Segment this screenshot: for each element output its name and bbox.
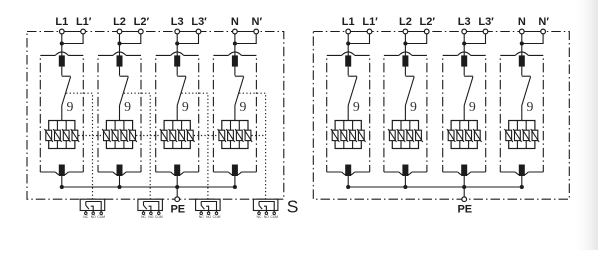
terminal L2' [424,29,429,34]
lower thermal disconnector L2 [402,165,408,177]
svg-text:N′: N′ [252,16,263,28]
module enclosure (dash-dot) around L3 path [156,55,199,172]
varistor 1 of L3 [447,129,455,142]
contact terminal NO of FM4 [265,211,268,215]
enclosure hop arc over L2 conductor [399,52,412,56]
mechanical linkage (dotted) from switch N to contact [239,93,265,199]
varistor 2 of N [513,129,521,142]
varistor bank box L2 [106,121,132,149]
junction dot N/N' [233,41,237,45]
varistor 2 of L2 [111,129,119,142]
terminal L3' [196,29,201,34]
varistor 3 of L3 [464,129,472,142]
varistor 2 of L3 [169,129,177,142]
svg-text:NC: NC [141,215,146,219]
wire N to PE bus [521,176,523,187]
wire PE bus to PE terminal [463,187,465,197]
terminal N [233,29,238,34]
changeover contact FM1 [86,202,101,211]
svg-text:9: 9 [124,99,131,114]
thermal disconnect switch L2 [119,67,121,76]
thermal disconnect switch L1 [61,67,63,76]
svg-text:NO: NO [148,215,153,219]
varistor 3 of N [522,129,530,142]
wire L1 to PE bus [61,176,63,187]
changeover contact FM2 [144,202,159,211]
svg-text:PE: PE [170,204,185,216]
svg-text:COM: COM [213,215,221,219]
upper thermal disconnector L3 [174,55,180,66]
varistor 3 of L2 [120,129,128,142]
svg-text:L3: L3 [458,16,471,28]
lower thermal disconnector L3 [461,165,467,177]
svg-text:9: 9 [66,99,73,114]
varistor 1 of L2 [102,129,110,142]
boundary segment between terminals [467,31,484,33]
thermal linkage (dotted) at varistor row L2 [136,135,161,137]
PE bus wire [62,186,235,188]
varistor 3 of N [235,129,243,142]
varistor 3 of L1 [348,129,356,142]
varistor 4 of N [244,129,252,142]
enclosure hop arc under L2 conductor [399,172,412,176]
terminal N' [254,29,259,34]
module enclosure (dash-dot) around L2 path [98,55,141,172]
changeover contact FM3 [201,202,216,211]
svg-text:L3: L3 [171,16,184,28]
svg-text:S: S [287,197,299,217]
svg-text:9: 9 [526,99,533,114]
wire L3 down to junction [463,34,465,56]
boundary segment between terminals [351,31,368,33]
lower thermal disconnector L1 [345,165,351,177]
svg-text:PE: PE [457,204,472,216]
thermal disconnect switch N [234,67,236,76]
svg-text:L2′: L2′ [134,16,150,28]
upper thermal disconnector L3 [461,55,467,66]
contact terminal NO of FM2 [150,211,153,215]
svg-text:COM: COM [270,215,278,219]
lower thermal disconnector L3 [174,165,180,177]
svg-text:L3′: L3′ [191,16,207,28]
svg-text:COM: COM [155,215,163,219]
varistor 2 of N [226,129,234,142]
junction dot on PE bus (L3) [462,185,466,189]
svg-text:NC: NC [257,215,262,219]
module enclosure (dash-dot) around N path [213,55,256,172]
varistor 4 of L1 [357,129,365,142]
varistor 1 of L3 [160,129,168,142]
varistor bank box N [222,121,248,149]
device enclosure (dash-dot) right block [313,32,569,200]
wire L3 down to junction [176,34,178,56]
varistor 2 of L3 [456,129,464,142]
wire N' down and over to junction [235,34,256,44]
svg-text:NO: NO [91,215,96,219]
varistor 4 of N [531,129,539,142]
remote signalling contact box FM2 [138,199,163,210]
enclosure hop arc over N conductor [228,52,241,56]
thermal linkage (dotted) at varistor row L1 [78,135,103,137]
varistor 2 of L1 [340,129,348,142]
contact terminal NO of FM1 [92,211,95,215]
varistor 1 of N [218,129,226,142]
contact terminal COM of FM3 [215,211,218,215]
junction dot N/N' [520,41,524,45]
junction dot on PE bus (L1) [346,185,350,189]
boundary segment between terminals [180,31,197,33]
varistor 3 of L3 [177,129,185,142]
upper thermal disconnector L1 [59,55,65,66]
svg-text:L2: L2 [113,16,126,28]
terminal N [519,29,524,34]
thermal linkage (dotted) at varistor row N [252,135,266,137]
svg-text:NC: NC [199,215,204,219]
enclosure hop arc under L1 conductor [55,172,68,176]
varistor 1 of N [505,129,513,142]
thermal disconnect switch L3 [463,67,465,76]
terminal L3 [462,29,467,34]
terminal L2 [403,29,408,34]
enclosure hop arc over L3 conductor [171,52,184,56]
terminal PE [175,197,180,202]
junction dot on PE bus (L3) [175,185,179,189]
contact terminal NO of FM3 [207,211,210,215]
varistor 4 of L2 [414,129,422,142]
module enclosure (dash-dot) around N path [500,55,543,172]
wire L1 down to junction [61,34,63,56]
changeover contact FM4 [259,202,274,211]
wire L1' down and over to junction [348,34,369,44]
varistor 1 of L1 [45,129,53,142]
varistor 1 of L1 [331,129,339,142]
varistor 2 of L1 [53,129,61,142]
varistor 4 of L3 [473,129,481,142]
svg-text:N: N [518,16,526,28]
enclosure hop arc over L1 conductor [342,52,355,56]
contact terminal COM of FM4 [273,211,276,215]
svg-text:L1: L1 [55,16,68,28]
contact terminal NC of FM2 [142,211,145,215]
varistor 4 of L3 [186,129,194,142]
svg-text:L1: L1 [342,16,355,28]
upper thermal disconnector L2 [117,55,123,66]
varistor bank box L1 [335,121,361,149]
svg-text:NO: NO [264,215,269,219]
module enclosure (dash-dot) around L2 path [384,55,427,172]
wire L3' down and over to junction [177,34,198,44]
contact terminal NC of FM3 [200,211,203,215]
upper thermal disconnector N [519,55,525,66]
wire L1 to PE bus [347,176,349,187]
varistor bank box N [509,121,535,149]
svg-text:COM: COM [97,215,105,219]
device enclosure (dash-dot) left (with remote signalling) block [27,32,284,200]
wire L3 to PE bus [463,176,465,187]
contact terminal NC of FM1 [85,211,88,215]
varistor 2 of L2 [397,129,405,142]
junction dot L1/L1' [346,41,350,45]
boundary segment between terminals [122,31,138,33]
thermal disconnect switch L3 [176,67,178,76]
varistor 4 of L2 [128,129,136,142]
thermal disconnect switch L2 [404,67,406,76]
boundary segment between terminals [237,31,254,33]
wire L2' down and over to junction [120,34,141,44]
terminal L1 [346,29,351,34]
enclosure hop arc under L3 conductor [171,172,184,176]
junction dot L2/L2' [403,41,407,45]
svg-text:L1′: L1′ [76,16,92,28]
thermal disconnect switch L1 [347,67,349,76]
thermal disconnect switch N [521,67,523,76]
boundary segment between terminals [408,31,425,33]
wire L2 to PE bus [119,176,121,187]
svg-text:NC: NC [83,215,88,219]
junction dot on PE bus (L2) [403,185,407,189]
wire N' down and over to junction [522,34,543,44]
upper thermal disconnector L2 [402,55,408,66]
boundary segment between terminals [524,31,541,33]
contact terminal COM of FM1 [100,211,103,215]
enclosure hop arc under L2 conductor [113,172,126,176]
wire N down to junction [234,34,236,56]
lower thermal disconnector L1 [59,165,65,177]
svg-text:9: 9 [353,99,360,114]
mechanical linkage (dotted) from switch L1 to contact [66,93,92,199]
wire PE bus to PE terminal [176,187,178,197]
PE bus wire [348,186,522,188]
enclosure hop arc under L3 conductor [458,172,471,176]
upper thermal disconnector N [232,55,238,66]
wire L1 down to junction [347,34,349,56]
svg-text:N′: N′ [538,16,549,28]
wire L2 to PE bus [404,176,406,187]
wire L3 to PE bus [176,176,178,187]
terminal L1' [367,29,372,34]
mechanical linkage (dotted) from switch L2 to contact [124,93,150,199]
varistor 4 of L1 [71,129,79,142]
lower thermal disconnector L2 [117,165,123,177]
wire L1' down and over to junction [62,34,83,44]
terminal L1' [81,29,86,34]
enclosure hop arc over L1 conductor [55,52,68,56]
junction dot L1/L1' [60,41,64,45]
boundary segment between terminals [64,31,81,33]
lower thermal disconnector N [232,165,238,177]
remote signalling contact box FM1 [80,199,105,210]
svg-text:9: 9 [469,99,476,114]
module enclosure (dash-dot) around L1 path [327,55,370,172]
terminal N' [541,29,546,34]
varistor 1 of L2 [388,129,396,142]
enclosure hop arc under N conductor [515,172,528,176]
module enclosure (dash-dot) around L3 path [443,55,486,172]
wire L2 down to junction [404,34,406,56]
svg-text:L2′: L2′ [420,16,436,28]
svg-text:L2: L2 [399,16,412,28]
junction dot on PE bus (N) [520,185,524,189]
contact terminal COM of FM2 [158,211,161,215]
varistor bank box L3 [164,121,190,149]
junction dot L3/L3' [175,41,179,45]
terminal PE [462,197,467,202]
junction dot L3/L3' [462,41,466,45]
enclosure hop arc over L2 conductor [113,52,126,56]
remote signalling contact box FM3 [196,199,221,210]
thermal linkage (dotted) at varistor row L3 [194,135,219,137]
svg-text:9: 9 [410,99,417,114]
varistor 3 of L2 [406,129,414,142]
varistor bank box L1 [49,121,75,149]
enclosure hop arc over L3 conductor [458,52,471,56]
terminal L2' [138,29,143,34]
terminal L3' [483,29,488,34]
svg-text:L3′: L3′ [478,16,494,28]
enclosure hop arc under L1 conductor [342,172,355,176]
junction dot on PE bus (L2) [117,185,121,189]
junction dot on PE bus (L1) [60,185,64,189]
varistor bank box L3 [451,121,477,149]
wire L2 down to junction [119,34,121,56]
lower thermal disconnector N [519,165,525,177]
svg-text:L1′: L1′ [362,16,378,28]
wire N to PE bus [234,176,236,187]
enclosure hop arc under N conductor [228,172,241,176]
contact terminal NC of FM4 [258,211,261,215]
svg-text:9: 9 [240,99,247,114]
svg-text:N: N [231,16,239,28]
terminal L1 [59,29,64,34]
wire N down to junction [521,34,523,56]
varistor bank box L2 [392,121,418,149]
module enclosure (dash-dot) around L1 path [40,55,83,172]
terminal L3 [175,29,180,34]
remote signalling contact box FM4 [253,199,278,210]
svg-text:9: 9 [182,99,189,114]
varistor 3 of L1 [62,129,70,142]
terminal L2 [117,29,122,34]
wire L2' down and over to junction [405,34,426,44]
page edge shading [572,0,598,250]
junction dot L2/L2' [117,41,121,45]
enclosure hop arc over N conductor [515,52,528,56]
mechanical linkage (dotted) from switch L3 to contact [182,93,208,199]
svg-text:NO: NO [206,215,211,219]
upper thermal disconnector L1 [345,55,351,66]
wire L3' down and over to junction [464,34,485,44]
junction dot on PE bus (N) [233,185,237,189]
